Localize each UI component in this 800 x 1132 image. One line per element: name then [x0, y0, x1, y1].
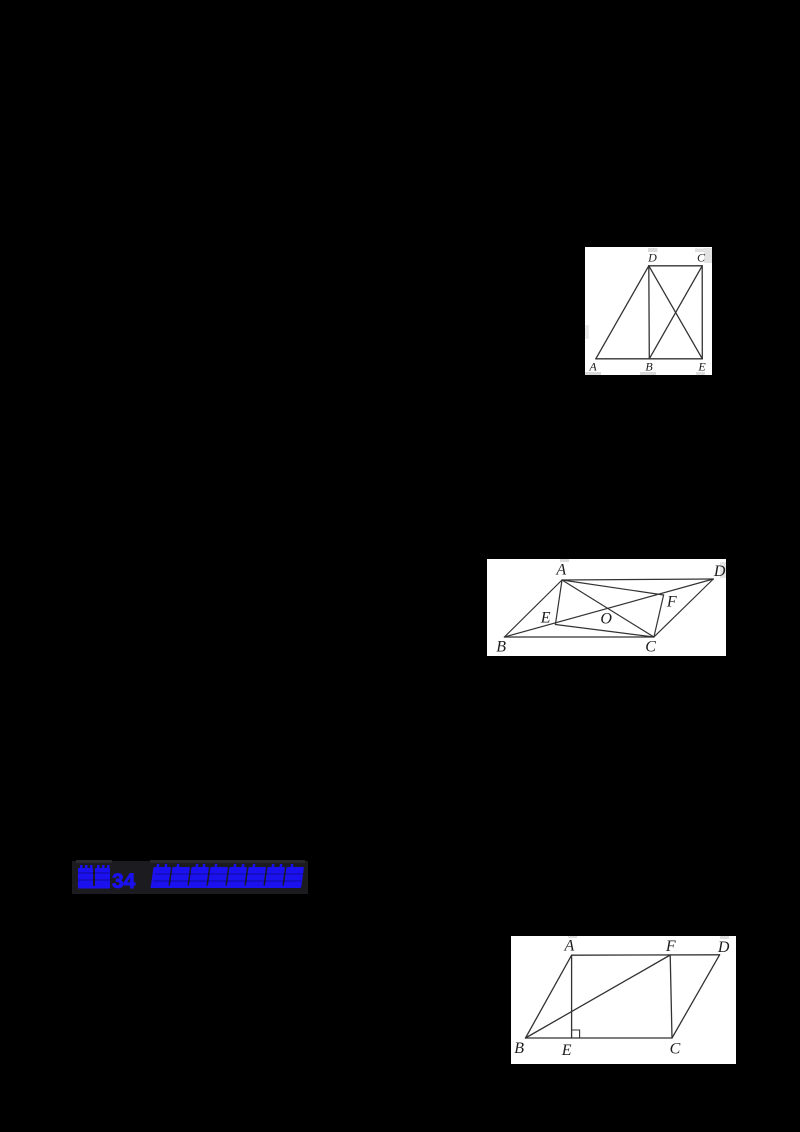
right angle mark at E [572, 1030, 580, 1038]
svg-text:D: D [647, 251, 657, 265]
segment AD top edge [572, 954, 720, 956]
segment AD [596, 266, 649, 359]
figure 1 white panel [585, 247, 712, 375]
svg-text:E: E [697, 360, 706, 374]
svg-text:F: F [665, 938, 676, 955]
figure 2 white panel [487, 559, 726, 656]
segment AE baseline [596, 358, 703, 360]
artifact gray tick top above A [560, 559, 569, 562]
segment DB [648, 266, 651, 359]
svg-text:C: C [645, 639, 656, 656]
svg-text:F: F [666, 593, 677, 610]
segment AB [504, 580, 562, 637]
artifact gray tick bottom below B [640, 372, 656, 375]
heading block glyph 2 [95, 868, 110, 888]
diagonal BF [526, 955, 671, 1038]
artifact gray tick left edge [585, 325, 589, 339]
segment BC [504, 636, 654, 638]
artifact gray tick top above D [648, 248, 658, 252]
artifact gray strip right edge near D [720, 562, 726, 578]
segment DC [654, 579, 713, 637]
heading glyphs group 2 (8 chars) [151, 864, 305, 888]
artifact gray strip top-right corner [704, 248, 712, 263]
segment FC [670, 955, 672, 1038]
segment BA [526, 955, 572, 1038]
artifact gray tick bottom below A [585, 372, 601, 375]
svg-text:C: C [670, 1041, 681, 1058]
segment DC [649, 265, 702, 267]
svg-text:B: B [645, 360, 653, 374]
svg-text:A: A [564, 938, 575, 955]
svg-text:B: B [496, 639, 506, 656]
underline stroke block 1 [78, 886, 110, 889]
segment BC bottom edge [526, 1037, 673, 1039]
segment CE [701, 266, 703, 359]
svg-text:A: A [588, 360, 597, 374]
svg-text:E: E [540, 610, 551, 627]
figure 3 white panel [511, 936, 736, 1064]
glyph texture slits [78, 873, 303, 881]
segment EC [555, 625, 654, 638]
svg-text:A: A [555, 562, 566, 579]
altitude AE [571, 955, 573, 1038]
diagonal AC [562, 580, 654, 637]
svg-text:E: E [561, 1042, 572, 1059]
segment FA [562, 580, 664, 595]
svg-text:D: D [713, 563, 726, 580]
blue heading row [0, 860, 800, 896]
svg-text:34: 34 [112, 870, 136, 893]
svg-text:B: B [514, 1040, 524, 1057]
svg-text:C: C [697, 251, 706, 265]
artifact gray tick bottom below E [696, 372, 705, 375]
segment CF [654, 595, 664, 637]
segment DC [672, 955, 720, 1038]
segment AD [562, 579, 713, 580]
artifact gray tick top above C [695, 249, 704, 253]
diagonal BD through E O F [504, 579, 713, 637]
segment BC diagonal [649, 266, 702, 359]
segment DE diagonal [649, 266, 703, 359]
artifact gray tick top above D [720, 936, 729, 939]
heading dark jpeg haze backdrop [72, 861, 308, 894]
svg-text:O: O [600, 610, 612, 627]
artifact gray tick top above A [568, 936, 577, 938]
heading block glyph 1 [78, 868, 93, 888]
svg-text:D: D [717, 939, 730, 956]
segment AE [555, 580, 562, 625]
